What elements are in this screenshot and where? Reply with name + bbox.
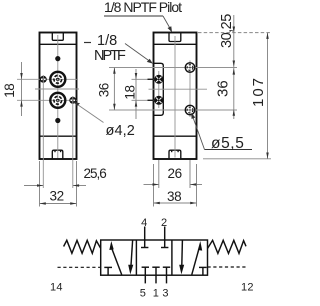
screw extension line lower xyxy=(132,99,154,101)
extension lines 26/38 xyxy=(154,160,197,207)
svg-text:2: 2 xyxy=(161,217,167,229)
svg-text:12: 12 xyxy=(241,282,254,294)
left cell flow arrow diagonal xyxy=(109,241,121,275)
right view vertical centerline xyxy=(174,36,176,158)
left view bottom notch xyxy=(52,150,63,158)
hole 5.5 upper xyxy=(185,63,194,72)
svg-text:14: 14 xyxy=(50,282,63,294)
dimension 30,25 and 36 chain line xyxy=(215,14,236,119)
port P2 (1/8 NPTF) xyxy=(50,93,65,108)
svg-text:38: 38 xyxy=(167,189,181,204)
svg-text:26: 26 xyxy=(168,166,182,181)
hole centerline lower xyxy=(109,109,237,111)
top extension line right xyxy=(198,32,271,34)
flange screw lower xyxy=(154,96,163,105)
right view bottom notch xyxy=(169,150,181,158)
port 1 stub and T xyxy=(152,267,159,283)
label 1/8 NPTF Pilot with leader xyxy=(104,0,182,32)
svg-text:36: 36 xyxy=(97,83,112,97)
right view top notch (pilot port) xyxy=(169,33,181,42)
side flange xyxy=(154,63,164,115)
hole 5.5 lower xyxy=(185,105,194,114)
screw centerline right extended xyxy=(72,96,74,188)
body edge extension lines xyxy=(40,161,77,207)
left view port centerline top xyxy=(17,78,78,80)
valve schematic body xyxy=(101,240,208,275)
pilot line 12 dashed xyxy=(208,266,247,268)
port 2 stub and T xyxy=(161,227,168,248)
svg-text:25,6: 25,6 xyxy=(84,166,107,181)
left view port centerline bottom xyxy=(17,99,78,101)
dimension 25,6 xyxy=(24,166,106,187)
flange centerline xyxy=(158,71,160,108)
svg-text:32: 32 xyxy=(50,189,64,204)
flange screw upper xyxy=(154,75,163,84)
screw centerline left extended xyxy=(42,75,44,188)
svg-text:ø5,5: ø5,5 xyxy=(211,135,244,152)
port P1 (1/8 NPTF) xyxy=(50,72,65,87)
hole centerline upper xyxy=(109,67,237,69)
svg-text:18: 18 xyxy=(123,85,138,99)
svg-text:1/8: 1/8 xyxy=(97,33,117,49)
left cell blocked port T xyxy=(104,267,112,275)
right cell flow arrow diagonal xyxy=(192,241,202,275)
label diameter 4,2 with leader xyxy=(74,102,135,139)
svg-text:18: 18 xyxy=(2,84,17,98)
dimension 18 right xyxy=(123,69,138,119)
left view top notch xyxy=(52,33,63,40)
right view mid construction line xyxy=(149,88,208,90)
svg-text:3: 3 xyxy=(162,287,168,299)
side screw right (4.2 hole) xyxy=(69,97,76,104)
pilot line 14 dashed xyxy=(58,266,101,268)
dimension 32 xyxy=(40,189,77,205)
mounting dot bottom xyxy=(55,118,60,123)
right spring xyxy=(208,240,247,253)
bottom extension line right xyxy=(203,158,271,160)
left cell down arrow xyxy=(128,241,133,275)
mounting dot top xyxy=(55,56,60,61)
left view body xyxy=(40,33,77,160)
dimension 38 xyxy=(154,189,197,204)
left view vertical centerline xyxy=(57,35,59,158)
svg-text:36: 36 xyxy=(215,80,232,97)
dimension 107 xyxy=(250,33,269,159)
left view mid construction line xyxy=(35,88,79,90)
svg-text:4: 4 xyxy=(141,217,147,229)
hole column centerline xyxy=(189,61,191,118)
svg-text:1: 1 xyxy=(153,287,159,299)
label 1/8 NPTF with leader xyxy=(84,33,153,64)
right cell down arrow xyxy=(179,241,184,275)
side screw left (4.2 hole) xyxy=(40,76,47,83)
svg-text:NPTF: NPTF xyxy=(94,48,126,64)
svg-text:1/8 NPTF Pilot: 1/8 NPTF Pilot xyxy=(104,0,182,15)
screw extension line upper xyxy=(132,78,154,80)
svg-text:30,25: 30,25 xyxy=(219,14,235,48)
right view body xyxy=(154,33,197,160)
dimension 36 between views xyxy=(97,68,116,111)
port 5 stub and T xyxy=(142,267,149,283)
right cell blocked port T xyxy=(199,267,207,275)
label diameter 5,5 with leader xyxy=(191,113,252,153)
svg-text:107: 107 xyxy=(250,76,267,107)
port 3 stub and T xyxy=(163,267,170,283)
svg-text:ø4,2: ø4,2 xyxy=(106,123,135,139)
svg-text:5: 5 xyxy=(140,287,146,299)
port 4 stub and T xyxy=(141,227,148,248)
left spring xyxy=(64,240,101,253)
dimension 18 left xyxy=(2,62,23,116)
dimension 26 xyxy=(144,166,203,186)
